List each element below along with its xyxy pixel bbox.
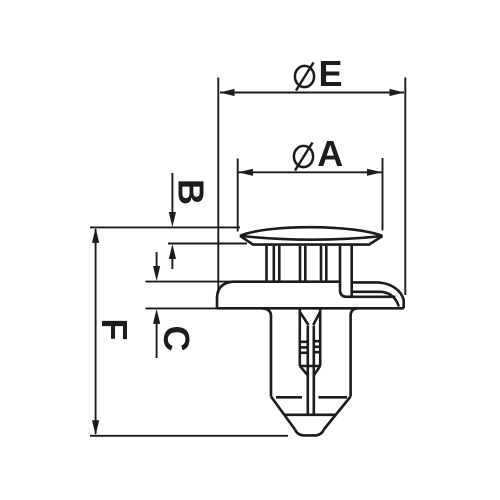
neck lip left wall: [350, 246, 353, 297]
arrowhead phiA right: [367, 169, 382, 176]
shank left wall: [270, 315, 273, 397]
pin funnel right: [313, 313, 320, 326]
extension line phiA right: [382, 158, 384, 231]
pin stem right: [312, 326, 315, 415]
shank rounded tip: [295, 430, 324, 436]
dimension line F shaft: [95, 229, 97, 434]
arrowhead C down: [153, 266, 160, 281]
neck rib line 1: [272, 246, 275, 282]
extension line phiE right: [404, 78, 406, 296]
cap underside rim line: [240, 236, 383, 240]
shank left taper: [271, 397, 295, 430]
shank inner line left segment: [276, 396, 302, 399]
flange right outer curl: [377, 282, 404, 308]
pin barb left 2: [300, 346, 308, 349]
pin barb right 2: [314, 345, 320, 348]
svg-text:C: C: [156, 326, 197, 352]
extension line flange bottom (C lower): [146, 307, 219, 309]
dimension line C upper shaft: [156, 252, 158, 267]
pin outer wall left: [298, 310, 301, 367]
neck rib line 3: [299, 246, 302, 282]
shank right wall: [349, 315, 352, 397]
shank right wall fillet: [351, 308, 358, 316]
extension line cap top (B/F upper): [90, 226, 240, 228]
extension line phiA left: [237, 159, 239, 232]
extension line cap bottom (B lower): [168, 243, 247, 245]
pin mid shoulder line: [300, 365, 320, 368]
neck outer wall left: [265, 246, 268, 282]
arrowhead F down: [92, 420, 99, 435]
pin funnel left: [300, 313, 308, 326]
flange lip underside line: [352, 290, 381, 293]
cap lower rim outline: [240, 236, 383, 245]
flange left edge: [216, 297, 219, 308]
pin barb left 3: [300, 351, 308, 354]
arrowhead F up: [92, 228, 99, 243]
phi symbol of phiE: [295, 66, 314, 87]
flange left rounded corner: [217, 282, 233, 298]
extension line part bottom (F lower): [90, 435, 288, 437]
flange slot floor: [347, 295, 396, 298]
shank inner line right segment: [319, 396, 348, 399]
pin barb left 1: [300, 340, 308, 343]
neck rib line 4: [304, 246, 307, 282]
svg-text:F: F: [94, 319, 135, 341]
pin lower chamfer left: [300, 366, 308, 375]
shank left wall fillet: [262, 308, 271, 316]
shank right taper: [324, 397, 351, 430]
pin outer wall right: [319, 310, 322, 367]
arrowhead B up: [169, 244, 176, 259]
dimension line phiA: [239, 171, 382, 173]
flange lip inner curl: [381, 292, 399, 307]
svg-text:A: A: [317, 133, 343, 174]
arrowhead C up: [153, 309, 160, 324]
arrowhead phiE right: [390, 89, 405, 96]
neck rib line 5: [320, 246, 323, 282]
pin barb right 3: [314, 351, 320, 354]
flange bottom line: [217, 307, 404, 310]
pin barb right 1: [314, 340, 320, 343]
dimension line B upper shaft: [171, 173, 173, 213]
extension line flange top (C upper): [146, 281, 234, 283]
dimension line C lower shaft: [156, 324, 158, 359]
neck right wall into slot: [340, 246, 347, 297]
pin stem left: [306, 326, 309, 415]
extension line phiE left: [217, 78, 219, 294]
neck rib line 2: [278, 246, 281, 282]
dimension line phiE: [220, 92, 404, 94]
arrowhead phiE left: [220, 89, 235, 96]
phi symbol of phiA: [294, 146, 313, 167]
neck rib line 6: [325, 246, 328, 282]
arrowhead phiA left: [238, 169, 253, 176]
dimension line B lower shaft: [171, 259, 173, 270]
svg-text:E: E: [318, 53, 342, 94]
cap top dome edge: [240, 227, 383, 236]
arrowhead B down: [169, 212, 176, 227]
pin lower chamfer right: [314, 366, 320, 375]
flange lip top right segment: [352, 281, 377, 284]
cone top line: [284, 413, 336, 416]
flange top line: [233, 280, 340, 283]
svg-text:B: B: [171, 179, 212, 205]
